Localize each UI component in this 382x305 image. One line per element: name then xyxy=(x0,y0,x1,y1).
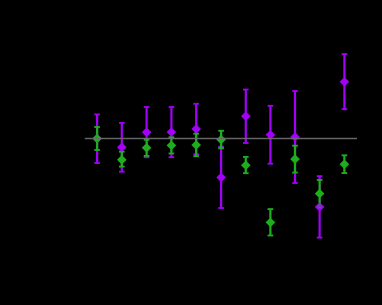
violet point 4 marker xyxy=(167,127,177,137)
violet point 10 error bar xyxy=(317,176,323,238)
zero line xyxy=(85,138,357,140)
green point 10 error bar xyxy=(317,180,323,207)
green point 7 overlay error bar xyxy=(243,157,249,173)
green point 8 error bar xyxy=(268,209,274,235)
green point 1 overlay error bar xyxy=(94,127,100,150)
violet point 8 error bar xyxy=(268,106,274,164)
violet point 6 error bar xyxy=(218,147,224,208)
green error bars translucent overlay xyxy=(94,127,347,236)
green point 6 marker xyxy=(216,135,226,145)
green point 9 error bar xyxy=(292,146,298,173)
green point 2 overlay error bar xyxy=(119,152,125,167)
violet point 1 error bar xyxy=(94,114,100,163)
violet point 9 marker xyxy=(290,132,300,142)
violet point 7 marker xyxy=(241,111,251,121)
green point 3 marker xyxy=(142,143,152,153)
green point 9 marker xyxy=(290,154,300,164)
green point 10 overlay error bar xyxy=(317,180,323,207)
violet point 10 marker xyxy=(315,202,325,212)
violet point 11 error bar xyxy=(342,54,348,109)
green point 1 error bar xyxy=(94,127,100,150)
violet point 4 error bar xyxy=(169,107,175,157)
green point 2 error bar xyxy=(119,152,125,167)
green point 5 marker xyxy=(191,140,201,150)
green point 4 overlay error bar xyxy=(169,137,175,153)
green point 6 overlay error bar xyxy=(218,131,224,149)
violet point 5 error bar xyxy=(193,104,199,155)
green point 3 error bar xyxy=(144,140,150,156)
violet point 1 marker xyxy=(92,134,102,144)
violet point 8 marker xyxy=(266,130,276,140)
green point 7 marker xyxy=(241,160,251,170)
violet point 11 marker xyxy=(340,77,350,87)
green point 3 overlay error bar xyxy=(144,140,150,156)
violet point 2 marker xyxy=(117,143,127,153)
violet point 3 error bar xyxy=(144,107,150,157)
green point 2 marker xyxy=(117,155,127,165)
green point 5 error bar xyxy=(193,134,199,157)
violet point 7 error bar xyxy=(243,90,249,144)
green point 11 marker xyxy=(340,159,350,169)
green point 6 error bar xyxy=(218,131,224,149)
green point 11 overlay error bar xyxy=(342,155,348,173)
violet point 9 error bar xyxy=(292,91,298,183)
green point 4 error bar xyxy=(169,137,175,153)
violet point 3 marker xyxy=(142,127,152,137)
green point 11 error bar xyxy=(342,155,348,173)
violet point 5 marker xyxy=(191,124,201,134)
violet point 6 marker xyxy=(216,173,226,183)
green point 1 marker xyxy=(92,134,102,144)
green point 5 overlay error bar xyxy=(193,134,199,157)
violet point 2 error bar xyxy=(119,123,125,172)
green point 8 overlay error bar xyxy=(268,209,274,235)
green point 9 overlay error bar xyxy=(292,146,298,173)
green point 8 marker xyxy=(266,218,276,228)
green point 4 marker xyxy=(167,141,177,151)
green point 10 marker xyxy=(315,189,325,199)
green point 7 error bar xyxy=(243,157,249,173)
